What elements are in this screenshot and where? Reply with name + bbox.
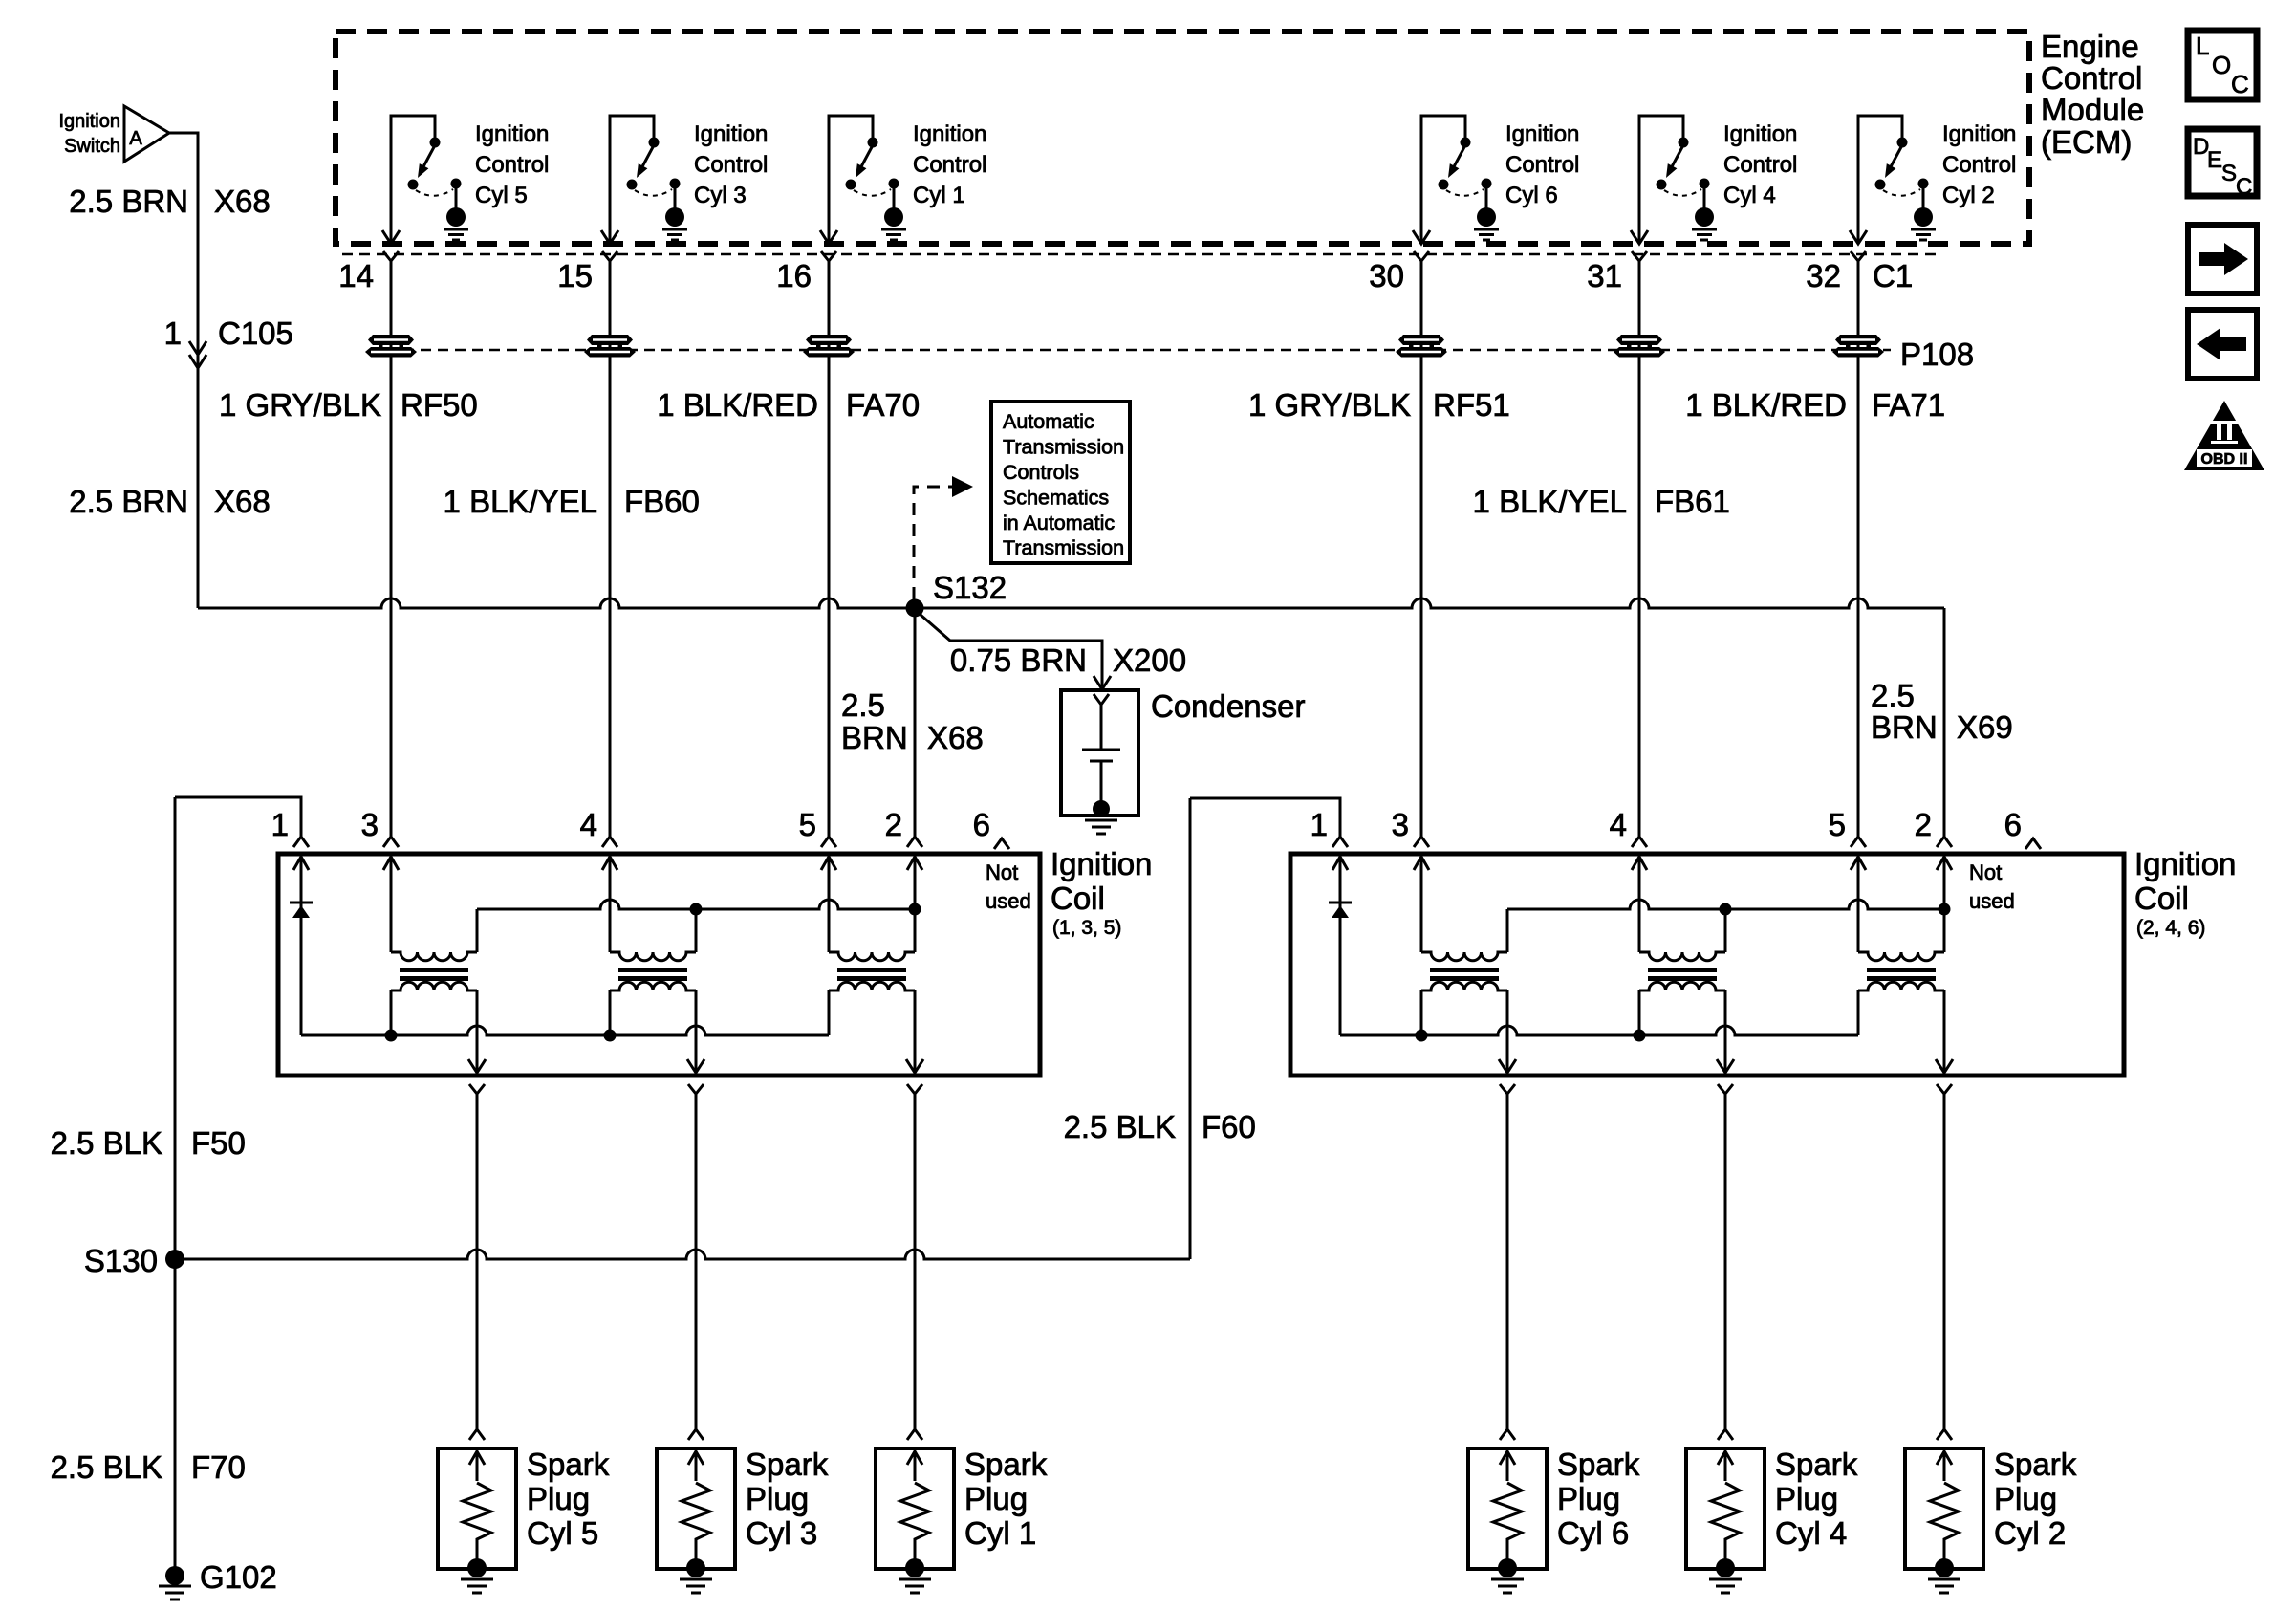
label P108 xyxy=(1900,337,1974,372)
svg-text:Coil: Coil xyxy=(2134,881,2189,916)
svg-text:in Automatic: in Automatic xyxy=(1003,511,1115,534)
grommet connector on wire x=1944 xyxy=(1832,335,1884,358)
label 2.5 BLK (F70) xyxy=(51,1449,162,1485)
coil primary feed wire x=638 xyxy=(609,857,612,952)
spark plug Cyl 2 internal arrow xyxy=(1937,1451,1952,1481)
coil HV output arrow (x=1577) xyxy=(1499,1059,1516,1073)
svg-text:C1: C1 xyxy=(1873,258,1913,294)
svg-text:0.75 BRN: 0.75 BRN xyxy=(950,642,1087,678)
coil transformer T1 (cyl 5) xyxy=(391,909,477,1075)
spark plug Cyl 5 internal arrow xyxy=(469,1451,485,1481)
coil HV output fork (x=2034) xyxy=(1937,1084,1952,1094)
label 1 GRY/BLK (RF50) xyxy=(219,387,381,423)
spark plug Cyl 3 resistor element xyxy=(682,1483,710,1568)
ECM pin 30 connector fork xyxy=(1414,251,1429,261)
svg-text:4: 4 xyxy=(1610,807,1627,842)
spark plug Cyl 6 ground symbol xyxy=(1491,1579,1524,1593)
label X68 (lower) xyxy=(214,484,271,519)
svg-text:Spark: Spark xyxy=(746,1447,829,1482)
right coil primary bus rail xyxy=(1507,900,1944,909)
label S130 xyxy=(84,1243,158,1278)
svg-text:Ignition: Ignition xyxy=(1723,121,1797,147)
svg-text:Spark: Spark xyxy=(527,1447,610,1482)
sidebar OBD II triangle xyxy=(2184,401,2264,470)
label Spark Plug Cyl 3 xyxy=(746,1447,829,1551)
ignition coil (1,3,5) box xyxy=(278,854,1040,1076)
svg-text:S130: S130 xyxy=(84,1243,158,1278)
label 2.5 BRN (X68 upper) xyxy=(69,184,188,219)
ignition switch symbol A xyxy=(124,106,169,162)
wire F50 vertical xyxy=(174,797,177,1576)
coil pin number 6 (right) xyxy=(2004,807,2022,842)
spark plug Cyl 5 ground symbol xyxy=(461,1579,493,1593)
grommet connector on wire x=638 xyxy=(584,335,636,358)
label G102 xyxy=(200,1559,277,1595)
label RF50 xyxy=(401,387,478,423)
spark plug Cyl 4 ground symbol xyxy=(1709,1579,1742,1593)
svg-text:32: 32 xyxy=(1806,258,1841,294)
wire FA71 pin32 to coil pin5 xyxy=(1857,261,1860,837)
spark plug wire (x=499) xyxy=(476,1094,479,1429)
spark plug Cyl 3 ground symbol xyxy=(680,1579,712,1593)
coil primary feed wire x=1944 xyxy=(1857,857,1860,952)
svg-text:RF50: RF50 xyxy=(401,387,478,423)
spark plug Cyl 5 resistor element xyxy=(463,1483,491,1568)
spark plug Cyl 6 connector fork xyxy=(1500,1429,1515,1440)
spark plug Cyl 4 box xyxy=(1686,1448,1765,1569)
svg-text:Cyl 2: Cyl 2 xyxy=(1942,183,1995,208)
svg-text:Not: Not xyxy=(1969,860,2002,884)
svg-text:Automatic: Automatic xyxy=(1003,410,1094,433)
sidebar LOC box xyxy=(2188,31,2257,99)
svg-text:C: C xyxy=(2236,174,2252,200)
sidebar next arrow box xyxy=(2188,225,2257,294)
ECM ignition control switch Cyl 4 xyxy=(1631,116,1717,244)
ground G102 dot xyxy=(165,1566,184,1585)
coil transformer T4 (cyl 6) xyxy=(1421,909,1507,1075)
svg-text:Control: Control xyxy=(694,152,768,178)
wire X69 down to right coil pin 2 xyxy=(1943,608,1946,837)
spark plug wire (x=1805) xyxy=(1724,1094,1727,1429)
svg-text:2.5 BLK: 2.5 BLK xyxy=(51,1449,162,1485)
coil pin number 5 (x=867) xyxy=(799,807,816,842)
label Not used (right coil) xyxy=(1969,860,2015,913)
coil pin number 1 (x=315) xyxy=(271,807,289,842)
svg-text:Ignition: Ignition xyxy=(913,121,986,147)
coil HV output arrow (x=499) xyxy=(468,1059,486,1073)
svg-text:Module: Module xyxy=(2041,92,2144,127)
label X200 xyxy=(1113,642,1186,678)
label X68 (upper) xyxy=(214,184,271,219)
svg-text:Cyl 5: Cyl 5 xyxy=(475,183,528,208)
svg-text:2.5 BRN: 2.5 BRN xyxy=(69,484,188,519)
svg-text:FB60: FB60 xyxy=(624,484,700,519)
label 1 BLK/YEL (FB60) xyxy=(444,484,597,519)
ECM pin 32 connector fork xyxy=(1851,251,1866,261)
coil pin 3 internal arrow (x=1487) xyxy=(1414,857,1429,870)
svg-text:2.5: 2.5 xyxy=(841,687,885,723)
label Not used (left coil) xyxy=(986,860,1031,913)
label 0.75 BRN xyxy=(950,642,1087,678)
condenser capacitor element xyxy=(1082,705,1120,809)
ECM dashed enclosure xyxy=(336,32,2029,244)
svg-text:4: 4 xyxy=(580,807,597,842)
svg-text:C105: C105 xyxy=(218,315,293,351)
automatic transmission note box xyxy=(991,402,1130,563)
coil pin 4 connector fork (x=1715) xyxy=(1632,837,1647,847)
svg-text:S132: S132 xyxy=(933,570,1007,605)
coil transformer T5 (cyl 4) xyxy=(1639,909,1725,1075)
coil primary feed wire x=409 xyxy=(390,857,393,952)
svg-text:Coil: Coil xyxy=(1051,881,1105,916)
svg-text:RF51: RF51 xyxy=(1433,387,1510,423)
svg-text:2: 2 xyxy=(1915,807,1932,842)
right coil rail junction dot (pin2) xyxy=(1939,903,1951,916)
spark plug Cyl 1 ground symbol xyxy=(899,1579,931,1593)
svg-text:Cyl 5: Cyl 5 xyxy=(527,1515,598,1551)
coil HV output fork (x=1577) xyxy=(1500,1084,1515,1094)
label 2.5 BRN X68 (coil feed) xyxy=(841,687,908,755)
svg-text:G102: G102 xyxy=(200,1559,277,1595)
label Ignition Control Cyl 4 xyxy=(1723,121,1797,208)
label 2.5 BRN (X68 lower) xyxy=(69,484,188,519)
sidebar previous arrow box xyxy=(2188,310,2257,379)
label FA71 xyxy=(1872,387,1945,423)
svg-text:30: 30 xyxy=(1369,258,1404,294)
coil pin 2 connector fork (x=2034) xyxy=(1937,837,1952,847)
svg-text:Cyl 2: Cyl 2 xyxy=(1994,1515,2066,1551)
label X69 xyxy=(1957,709,2013,745)
svg-text:X68: X68 xyxy=(214,484,271,519)
spark plug Cyl 3 connector fork xyxy=(688,1429,704,1440)
svg-text:2.5: 2.5 xyxy=(1871,678,1915,713)
svg-text:A: A xyxy=(129,128,142,149)
coil transformer T2 (cyl 3) xyxy=(610,909,696,1075)
svg-text:FA70: FA70 xyxy=(846,387,920,423)
label S132 xyxy=(933,570,1007,605)
ECM pin number 30 xyxy=(1369,258,1404,294)
wire RF50 pin14 to coil pin3 xyxy=(390,261,393,837)
grommet connector on wire x=1487 xyxy=(1396,335,1447,358)
label Ignition Coil (2, 4, 6) xyxy=(2134,846,2236,939)
label F50 xyxy=(191,1125,246,1161)
condenser internal connector fork xyxy=(1094,694,1109,705)
coil pin 4 internal arrow (x=638) xyxy=(602,857,617,870)
condenser box xyxy=(1061,690,1138,816)
wire ignition switch to X68 bus xyxy=(169,133,198,608)
ECM ignition control switch Cyl 2 xyxy=(1850,116,1936,244)
spark plug Cyl 6 resistor element xyxy=(1493,1483,1522,1568)
right coil pin2 internal wire xyxy=(1943,857,1946,909)
svg-text:OBD II: OBD II xyxy=(2201,451,2248,468)
coil pin number 5 (x=1944) xyxy=(1829,807,1846,842)
coil HV output arrow (x=957) xyxy=(906,1059,923,1073)
coil pin 1 internal arrow (x=1402) xyxy=(1332,857,1348,870)
condenser ground dot xyxy=(1093,800,1110,817)
svg-text:1 GRY/BLK: 1 GRY/BLK xyxy=(219,387,381,423)
svg-text:F60: F60 xyxy=(1202,1109,1256,1144)
wire FB60 pin15 to coil pin4 xyxy=(609,261,612,837)
svg-text:Spark: Spark xyxy=(1557,1447,1640,1482)
coil pin 6 mark (left) xyxy=(994,838,1009,849)
svg-text:Cyl 4: Cyl 4 xyxy=(1723,183,1776,208)
svg-text:6: 6 xyxy=(2004,807,2022,842)
spark plug wire (x=957) xyxy=(914,1094,917,1429)
ECM pin number 16 xyxy=(776,258,812,294)
wire 0.75 BRN X200 to condenser xyxy=(921,615,1102,686)
svg-text:(1, 3, 5): (1, 3, 5) xyxy=(1052,917,1121,939)
coil HV output fork (x=957) xyxy=(907,1084,922,1094)
spark plug wire (x=728) xyxy=(695,1094,698,1429)
wire X68 down to left coil pin 2 xyxy=(914,617,917,837)
coil pin 1 internal arrow (x=315) xyxy=(293,857,309,870)
coil pin number 2 (x=957) xyxy=(885,807,902,842)
svg-text:2.5 BLK: 2.5 BLK xyxy=(51,1125,162,1161)
ECM pin 15 connector fork xyxy=(602,251,617,261)
spark plug Cyl 1 box xyxy=(876,1448,954,1569)
svg-text:Control: Control xyxy=(2041,60,2142,96)
wire FA70 pin16 to coil pin5 xyxy=(828,261,831,837)
spark plug Cyl 1 ground dot xyxy=(905,1558,924,1577)
right coil pin1 internal wire xyxy=(1339,857,1342,903)
svg-text:FB61: FB61 xyxy=(1655,484,1730,519)
svg-text:Cyl 1: Cyl 1 xyxy=(913,183,965,208)
svg-text:used: used xyxy=(986,889,1031,913)
spark plug Cyl 2 resistor element xyxy=(1930,1483,1959,1568)
svg-text:Control: Control xyxy=(1505,152,1579,178)
right secondary rail dot (T5) xyxy=(1634,1030,1646,1042)
coil pin 3 connector fork (x=1487) xyxy=(1414,837,1429,847)
dashed leader to automatic transmission schematic xyxy=(914,476,973,599)
svg-text:2.5 BLK: 2.5 BLK xyxy=(1064,1109,1176,1144)
spark plug Cyl 5 box xyxy=(438,1448,516,1569)
connector C105 symbol xyxy=(189,341,206,368)
svg-text:6: 6 xyxy=(973,807,990,842)
coil pin 4 connector fork (x=638) xyxy=(602,837,617,847)
spark plug wire (x=1577) xyxy=(1506,1094,1509,1429)
label RF51 xyxy=(1433,387,1510,423)
spark plug Cyl 2 box xyxy=(1905,1448,1983,1569)
splice S130 dot xyxy=(165,1250,184,1269)
svg-text:Ignition: Ignition xyxy=(1051,846,1152,881)
coil pin number 4 (x=638) xyxy=(580,807,597,842)
svg-text:16: 16 xyxy=(776,258,812,294)
label F60 xyxy=(1202,1109,1256,1144)
svg-text:Switch: Switch xyxy=(64,136,120,157)
svg-text:used: used xyxy=(1969,889,2015,913)
spark plug Cyl 6 ground dot xyxy=(1498,1558,1517,1577)
ECM connector C1 thin dashed line xyxy=(342,253,1940,256)
svg-text:Plug: Plug xyxy=(746,1481,809,1516)
svg-text:Control: Control xyxy=(913,152,986,178)
svg-text:FA71: FA71 xyxy=(1872,387,1945,423)
label 2.5 BLK (F50) xyxy=(51,1125,162,1161)
coil pin number 2 (x=2034) xyxy=(1915,807,1932,842)
coil transformer T3 (cyl 1) xyxy=(829,909,915,1075)
ignition coil (2,4,6) box xyxy=(1290,854,2124,1076)
coil HV output fork (x=1805) xyxy=(1718,1084,1733,1094)
grommet connector on wire x=867 xyxy=(803,335,855,358)
harness dashed line to P108 xyxy=(369,349,1891,352)
label Ignition Control Cyl 2 xyxy=(1942,121,2016,208)
svg-text:Spark: Spark xyxy=(964,1447,1048,1482)
spark plug Cyl 2 ground symbol xyxy=(1928,1579,1960,1593)
coil pin 5 internal arrow (x=1944) xyxy=(1851,857,1866,870)
svg-text:Spark: Spark xyxy=(1775,1447,1858,1482)
left coil rail junction dot (pin2) xyxy=(909,903,921,916)
label F70 xyxy=(191,1449,246,1485)
connector C105 pin 1 label xyxy=(164,315,182,351)
wire F60 vertical xyxy=(1189,798,1192,1259)
left coil rail junction dot (T2) xyxy=(690,903,703,916)
condenser ground symbol xyxy=(1085,820,1117,834)
coil pin 3 connector fork (x=409) xyxy=(383,837,399,847)
coil primary feed wire x=867 xyxy=(828,857,831,952)
svg-text:31: 31 xyxy=(1587,258,1622,294)
label Ignition Control Cyl 3 xyxy=(694,121,768,208)
coil transformer T6 (cyl 2) xyxy=(1858,909,1944,1075)
right secondary rail dot (T4) xyxy=(1416,1030,1428,1042)
wire FB61 pin31 to coil pin4 xyxy=(1638,261,1641,837)
ECM pin number 32 xyxy=(1806,258,1841,294)
svg-text:Plug: Plug xyxy=(1775,1481,1838,1516)
label FA70 xyxy=(846,387,920,423)
label Spark Plug Cyl 6 xyxy=(1557,1447,1640,1551)
label 1 BLK/YEL (FB61) xyxy=(1473,484,1627,519)
coil pin number 1 (x=1402) xyxy=(1310,807,1328,842)
svg-text:(2, 4, 6): (2, 4, 6) xyxy=(2136,917,2205,939)
label C105 xyxy=(218,315,293,351)
right coil rail junction dot (T5) xyxy=(1720,903,1732,916)
spark plug wire (x=2034) xyxy=(1943,1094,1946,1429)
spark plug Cyl 1 connector fork xyxy=(907,1429,922,1440)
coil HV output fork (x=499) xyxy=(469,1084,485,1094)
svg-text:S: S xyxy=(2221,161,2237,186)
coil pin 3 internal arrow (x=409) xyxy=(383,857,399,870)
svg-text:Ignition: Ignition xyxy=(2134,846,2236,881)
spark plug Cyl 2 connector fork xyxy=(1937,1429,1952,1440)
wire F60 corner to right coil pin 1 xyxy=(1190,798,1340,837)
spark plug Cyl 4 connector fork xyxy=(1718,1429,1733,1440)
svg-text:Transmission: Transmission xyxy=(1003,536,1124,559)
coil pin number 4 (x=1715) xyxy=(1610,807,1627,842)
svg-text:Controls: Controls xyxy=(1003,461,1079,484)
svg-text:5: 5 xyxy=(799,807,816,842)
left coil primary bus rail xyxy=(477,900,915,909)
svg-text:Cyl 6: Cyl 6 xyxy=(1505,183,1558,208)
label 1 BLK/RED (FA71) xyxy=(1685,387,1847,423)
svg-text:BRN: BRN xyxy=(841,720,908,755)
svg-text:1 GRY/BLK: 1 GRY/BLK xyxy=(1248,387,1411,423)
grommet connector on wire x=409 xyxy=(365,335,417,358)
svg-text:Ignition: Ignition xyxy=(1505,121,1579,147)
coil pin 4 internal arrow (x=1715) xyxy=(1632,857,1647,870)
spark plug Cyl 1 internal arrow xyxy=(907,1451,922,1481)
ECM pin 31 connector fork xyxy=(1632,251,1647,261)
coil HV output arrow (x=728) xyxy=(687,1059,704,1073)
spark plug Cyl 4 internal arrow xyxy=(1718,1451,1733,1481)
spark plug Cyl 3 ground dot xyxy=(686,1558,705,1577)
label FB60 xyxy=(624,484,700,519)
svg-text:Plug: Plug xyxy=(964,1481,1028,1516)
svg-text:Schematics: Schematics xyxy=(1003,487,1109,510)
splice S132 junction dot xyxy=(906,599,924,618)
svg-text:Plug: Plug xyxy=(1557,1481,1620,1516)
arrow into condenser xyxy=(1094,676,1111,689)
ECM pin number 15 xyxy=(557,258,593,294)
label 1 BLK/RED (FA70) xyxy=(657,387,818,423)
svg-text:Control: Control xyxy=(475,152,549,178)
coil pin 5 connector fork (x=1944) xyxy=(1851,837,1866,847)
ECM pin 14 connector fork xyxy=(383,251,399,261)
svg-text:Cyl 3: Cyl 3 xyxy=(694,183,747,208)
svg-text:Transmission: Transmission xyxy=(1003,436,1124,459)
spark plug Cyl 5 connector fork xyxy=(469,1429,485,1440)
svg-text:Cyl 3: Cyl 3 xyxy=(746,1515,817,1551)
coil primary feed wire x=1715 xyxy=(1638,857,1641,952)
label Engine Control Module (ECM) xyxy=(2041,29,2144,160)
svg-text:Cyl 1: Cyl 1 xyxy=(964,1515,1036,1551)
ECM pin number 14 xyxy=(338,258,374,294)
svg-text:5: 5 xyxy=(1829,807,1846,842)
coil pin number 3 (x=1487) xyxy=(1392,807,1409,842)
coil pin 5 internal arrow (x=867) xyxy=(821,857,836,870)
ECM ignition control switch Cyl 3 xyxy=(601,116,687,244)
coil primary feed wire x=1487 xyxy=(1420,857,1423,952)
label Ignition Control Cyl 5 xyxy=(475,121,549,208)
coil pin 2 internal arrow (x=2034) xyxy=(1937,857,1952,870)
left secondary rail dot (T2) xyxy=(604,1030,617,1042)
spark plug Cyl 6 box xyxy=(1468,1448,1547,1569)
svg-text:Ignition: Ignition xyxy=(475,121,549,147)
label Spark Plug Cyl 4 xyxy=(1775,1447,1858,1551)
coil HV output arrow (x=1805) xyxy=(1717,1059,1734,1073)
svg-text:1 BLK/RED: 1 BLK/RED xyxy=(1685,387,1847,423)
svg-text:P108: P108 xyxy=(1900,337,1974,372)
sidebar DESC box xyxy=(2188,129,2257,200)
label Ignition Control Cyl 6 xyxy=(1505,121,1579,208)
label 2.5 BLK (F60) xyxy=(1064,1109,1176,1144)
left coil pin2 internal wire xyxy=(914,857,917,909)
svg-text:Plug: Plug xyxy=(527,1481,590,1516)
spark plug Cyl 4 resistor element xyxy=(1711,1483,1740,1568)
svg-text:Ignition: Ignition xyxy=(1942,121,2016,147)
automatic transmission note text xyxy=(1003,410,1124,559)
left secondary rail dot (T1) xyxy=(385,1030,398,1042)
svg-text:15: 15 xyxy=(557,258,593,294)
svg-text:F50: F50 xyxy=(191,1125,246,1161)
svg-text:Not: Not xyxy=(986,860,1018,884)
label Spark Plug Cyl 2 xyxy=(1994,1447,2077,1551)
spark plug Cyl 4 ground dot xyxy=(1716,1558,1735,1577)
grommet connector on wire x=1715 xyxy=(1614,335,1665,358)
svg-text:O: O xyxy=(2212,51,2231,79)
ECM connector label C1 xyxy=(1873,258,1913,294)
ignition switch label xyxy=(59,111,121,157)
coil pin number 6 (left) xyxy=(973,807,990,842)
svg-text:Control: Control xyxy=(1942,152,2016,178)
svg-text:Spark: Spark xyxy=(1994,1447,2077,1482)
svg-text:1 BLK/YEL: 1 BLK/YEL xyxy=(1473,484,1627,519)
coil pin 1 connector fork (x=315) xyxy=(293,837,309,847)
wire RF51 pin30 to coil pin3 xyxy=(1420,261,1423,837)
svg-text:1: 1 xyxy=(271,807,289,842)
svg-text:F70: F70 xyxy=(191,1449,246,1485)
svg-text:2.5 BRN: 2.5 BRN xyxy=(69,184,188,219)
coil HV output arrow (x=2034) xyxy=(1936,1059,1953,1073)
svg-text:Ignition: Ignition xyxy=(59,111,121,132)
S130 ground rail with hops xyxy=(175,1250,1190,1259)
